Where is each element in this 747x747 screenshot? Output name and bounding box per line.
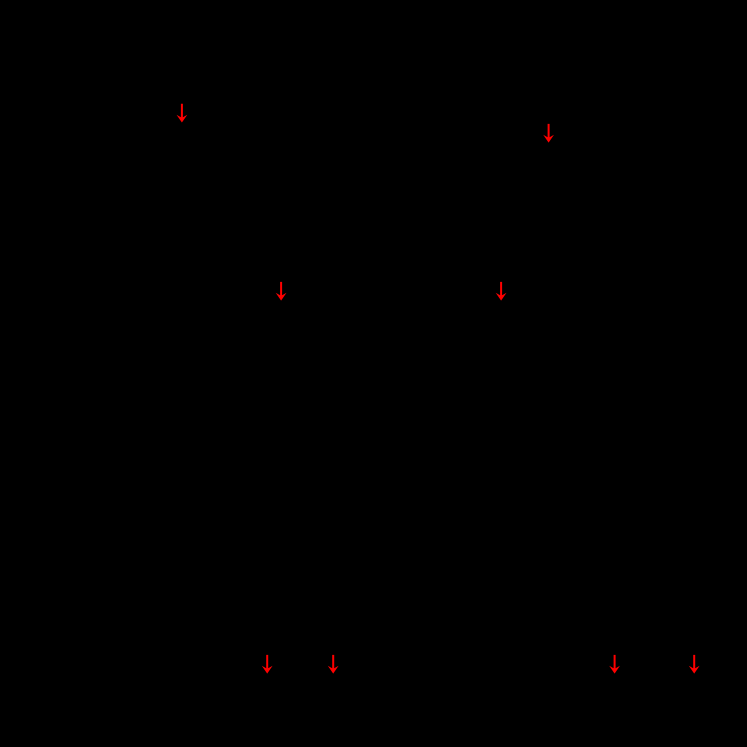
svg-text:R7: R7	[583, 687, 604, 704]
resistor R8	[688, 676, 700, 710]
wire branch A vertical	[181, 95, 183, 240]
current arrow I2	[543, 124, 554, 143]
node A	[179, 92, 185, 98]
current arrow I3	[276, 282, 287, 301]
current arrow I8	[689, 655, 700, 674]
svg-text:R8: R8	[706, 687, 727, 704]
svg-text:V1: V1	[20, 312, 40, 329]
wire bottom return	[60, 619, 300, 621]
voltage source V1	[32, 292, 88, 348]
svg-text:R3: R3	[295, 332, 316, 349]
current arrow I6	[328, 655, 339, 674]
svg-text:R5: R5	[236, 687, 257, 704]
wire branch E vertical	[266, 620, 268, 720]
wire bottom-right split rail	[614, 619, 694, 621]
resistor R3	[275, 310, 287, 370]
resistor R5	[261, 676, 273, 710]
wire left vertical	[59, 95, 61, 620]
current arrow I4	[496, 282, 507, 301]
ground	[468, 420, 492, 455]
svg-text:R1: R1	[196, 152, 217, 169]
wire branch C vertical	[280, 240, 282, 420]
wire branch F vertical	[332, 620, 334, 720]
svg-text:R2: R2	[563, 172, 584, 189]
svg-text:R4: R4	[515, 332, 536, 349]
svg-text:R6: R6	[345, 687, 366, 704]
wire bottom-left join rail	[267, 719, 333, 721]
current arrow I1	[177, 104, 188, 123]
wire branch H vertical	[693, 620, 695, 720]
resistor R2	[543, 150, 555, 210]
wire lower rail	[100, 419, 650, 421]
resistor R4	[495, 310, 507, 370]
wire top rail	[60, 94, 690, 96]
wire branch G vertical	[613, 620, 615, 720]
resistor R7	[608, 676, 620, 710]
wire branch D vertical	[500, 240, 502, 420]
current arrow I5	[262, 655, 273, 674]
wire bottom-left split rail	[267, 619, 333, 621]
current arrow I7	[609, 655, 620, 674]
resistor R1	[176, 130, 188, 190]
wire bottom-right feed	[653, 420, 655, 620]
node B	[546, 92, 552, 98]
wire bottom-right join rail	[614, 719, 694, 721]
wire branch B vertical	[548, 95, 550, 240]
node C	[278, 237, 284, 243]
wire bottom-left feed	[299, 420, 301, 620]
wire mid rail	[100, 239, 650, 241]
node D	[498, 237, 504, 243]
resistor R6	[327, 676, 339, 710]
